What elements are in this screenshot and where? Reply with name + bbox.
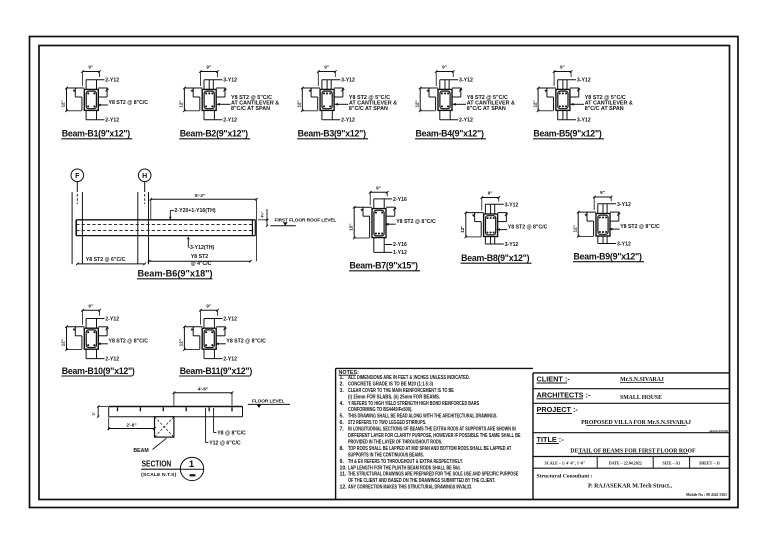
svg-text:Beam-B4(9"x12"): Beam-B4(9"x12") — [416, 129, 484, 139]
svg-text:12.: 12. — [340, 485, 348, 491]
svg-text:DIFFERENT LAYER FOR CLARITY P: DIFFERENT LAYER FOR CLARITY PURPOSE, HOW… — [348, 433, 521, 439]
svg-text:Beam-B3(9"x12"): Beam-B3(9"x12") — [298, 129, 366, 139]
svg-text:Beam-B1(9"x12"): Beam-B1(9"x12") — [62, 129, 130, 139]
svg-text:TH & EX REFERS TO THROUGHOUT &: TH & EX REFERS TO THROUGHOUT & EXTRA RES… — [348, 459, 463, 465]
svg-text:Y8 ST2 @ 8"C/C: Y8 ST2 @ 8"C/C — [109, 339, 149, 345]
svg-text:9": 9" — [88, 303, 93, 308]
svg-text:CLIENT :-: CLIENT :- — [537, 375, 571, 384]
svg-text:@ 4"C/C: @ 4"C/C — [191, 261, 212, 267]
svg-text:Beam-B10(9"x12"): Beam-B10(9"x12") — [62, 366, 135, 376]
svg-text:2-Y12: 2-Y12 — [341, 118, 355, 124]
svg-text:Beam-B7(9"x15"): Beam-B7(9"x15") — [350, 261, 418, 271]
svg-text:2.: 2. — [340, 381, 345, 387]
svg-text:2'-6": 2'-6" — [126, 422, 136, 428]
svg-text:2-Y12: 2-Y12 — [105, 118, 119, 124]
svg-text:9": 9" — [376, 185, 381, 190]
svg-text:5'-3": 5'-3" — [195, 193, 205, 199]
svg-text:5.: 5. — [340, 414, 345, 420]
svg-text:3": 3" — [92, 411, 96, 415]
svg-text:FLOOR LEVEL: FLOOR LEVEL — [252, 399, 285, 405]
svg-text:10.: 10. — [340, 465, 348, 471]
svg-text:Y8 ST2 @ 8"C/C: Y8 ST2 @ 8"C/C — [620, 224, 660, 230]
svg-text:PROVIDED IN THE LAYER OF THROU: PROVIDED IN THE LAYER OF THROUGHOUT RODS… — [348, 440, 443, 446]
svg-text:(i) 15mm FOR SLABS, (ii) 25mm: (i) 15mm FOR SLABS, (ii) 25mm FOR BEAMS. — [348, 394, 440, 400]
svg-text:Beam-B11(9"x12"): Beam-B11(9"x12") — [180, 366, 253, 376]
svg-text:8.: 8. — [340, 446, 345, 452]
svg-text:9": 9" — [600, 190, 605, 195]
svg-text:9": 9" — [88, 65, 93, 70]
svg-text:12": 12" — [61, 339, 66, 346]
svg-text:LAP LENGTH FOR THE PLINTH BEAM: LAP LENGTH FOR THE PLINTH BEAM RODS SHAL… — [348, 465, 461, 471]
svg-text:ALL DIMENSIONS ARE IN FEET & I: ALL DIMENSIONS ARE IN FEET & INCHES UNLE… — [348, 375, 470, 381]
svg-text:TOP RODS SHALL BE LAPPED AT MI: TOP RODS SHALL BE LAPPED AT MID SPAN AND… — [348, 446, 512, 452]
svg-text:12": 12" — [61, 100, 66, 107]
svg-text:CONFORMING TO BS4449/Fe500).: CONFORMING TO BS4449/Fe500). — [348, 407, 413, 413]
svg-text:THIS DRAWING SHALL BE READ ALO: THIS DRAWING SHALL BE READ ALONG WITH TH… — [348, 414, 498, 420]
svg-text:2-Y12: 2-Y12 — [105, 317, 119, 323]
svg-text:IN LONGITUDINAL SECTIONS OF BE: IN LONGITUDINAL SECTIONS OF BEAMS THE EX… — [348, 427, 516, 433]
svg-text:TITLE :-: TITLE :- — [537, 435, 565, 444]
svg-text:DATE – 22.04.2022: DATE – 22.04.2022 — [609, 460, 642, 465]
svg-text:1-Y12: 1-Y12 — [393, 250, 407, 256]
svg-text:12": 12" — [179, 339, 184, 346]
svg-text:ANY CORRECTION MAKES THIS STRU: ANY CORRECTION MAKES THIS STRUCTURAL DRA… — [348, 485, 473, 491]
svg-text:3-Y12: 3-Y12 — [341, 78, 355, 84]
svg-text:2-Y16: 2-Y16 — [393, 197, 407, 203]
svg-text:Beam-B6(9"x18"): Beam-B6(9"x18") — [138, 269, 213, 279]
svg-text:3.: 3. — [340, 388, 345, 394]
svg-text:12": 12" — [532, 100, 537, 107]
svg-text:2-Y16: 2-Y16 — [393, 242, 407, 248]
svg-text:2-Y20+1-Y16(TH): 2-Y20+1-Y16(TH) — [175, 208, 216, 214]
svg-text:THE STRUCTURAL DRAWINGS ARE PR: THE STRUCTURAL DRAWINGS ARE PREPARED FOR… — [348, 472, 519, 478]
svg-text:2-Y12: 2-Y12 — [223, 356, 237, 362]
svg-text:(SCALE N.T.S): (SCALE N.T.S) — [141, 472, 177, 477]
svg-text:Y12 @ 6"C/C: Y12 @ 6"C/C — [209, 441, 241, 447]
svg-text:9": 9" — [324, 65, 329, 70]
svg-text:2-Y12: 2-Y12 — [459, 118, 473, 124]
svg-text:CONCRETE GRADE IS TO BE M20 (1: CONCRETE GRADE IS TO BE M20 (1:1.5:3) — [348, 381, 433, 387]
svg-text:8"C/C AT SPAN: 8"C/C AT SPAN — [231, 106, 270, 112]
svg-text:SECTION: SECTION — [142, 459, 172, 469]
svg-text:Y8 ST2: Y8 ST2 — [191, 254, 208, 260]
svg-text:SIZE – A3: SIZE – A3 — [663, 460, 681, 465]
svg-text:ARCHITECTS :-: ARCHITECTS :- — [537, 390, 591, 399]
svg-text:Y8 ST2 @ 8"C/C: Y8 ST2 @ 8"C/C — [109, 100, 149, 106]
svg-text:3-Y12(TH): 3-Y12(TH) — [190, 245, 214, 251]
svg-text:SUPPORTS IN THE CONTINUOUS BEA: SUPPORTS IN THE CONTINUOUS BEAMS. — [348, 452, 424, 458]
svg-text:Y REFERS TO HIGH YIELD STRENGT: Y REFERS TO HIGH YIELD STRENGTH HIGH BON… — [348, 401, 479, 407]
svg-text:12": 12" — [179, 100, 184, 107]
svg-text:FIRST FLOOR ROOF LEVEL: FIRST FLOOR ROOF LEVEL — [275, 218, 337, 224]
svg-text:2-Y12: 2-Y12 — [223, 317, 237, 323]
svg-text:3-Y12: 3-Y12 — [577, 78, 591, 84]
svg-text:15": 15" — [348, 223, 353, 230]
svg-text:4.: 4. — [340, 401, 345, 407]
svg-text:7.: 7. — [340, 427, 345, 433]
svg-text:12": 12" — [297, 100, 302, 107]
svg-text:OF THE CLIENT AND BASED ON THE: OF THE CLIENT AND BASED ON THE DRAWINGS … — [348, 478, 496, 484]
svg-text:11.: 11. — [340, 472, 347, 478]
svg-text:SCALE – 1: 4'-0", 1'-0": SCALE – 1: 4'-0", 1'-0" — [545, 460, 586, 465]
svg-text:SHEET – 11: SHEET – 11 — [699, 460, 720, 465]
svg-text:F: F — [75, 173, 80, 180]
svg-text:3-Y12: 3-Y12 — [505, 202, 519, 208]
svg-text:PROJECT :-: PROJECT :- — [537, 405, 579, 414]
svg-text:SMALL HOUSE: SMALL HOUSE — [620, 395, 662, 401]
svg-text:9": 9" — [206, 303, 211, 308]
svg-text:Y8 ST2 @ 6"C/C: Y8 ST2 @ 6"C/C — [86, 257, 126, 263]
svg-text:9": 9" — [206, 65, 211, 70]
svg-text:2-Y12: 2-Y12 — [223, 118, 237, 124]
svg-text:Structural Consultant :: Structural Consultant : — [537, 473, 593, 479]
svg-text:Beam-B5(9"x12"): Beam-B5(9"x12") — [533, 129, 601, 139]
svg-text:ARANGANOOR: ARANGANOOR — [709, 430, 728, 433]
svg-text:Y8 ST2 @ 8"C/C: Y8 ST2 @ 8"C/C — [508, 224, 548, 230]
svg-text:1: 1 — [189, 459, 195, 470]
svg-text:8"C/C AT SPAN: 8"C/C AT SPAN — [467, 106, 506, 112]
svg-text:8"C/C AT SPAN: 8"C/C AT SPAN — [349, 106, 388, 112]
svg-text:2-Y12: 2-Y12 — [105, 78, 119, 84]
svg-text:ST2 REFERS TO TWO LEGGED STIRR: ST2 REFERS TO TWO LEGGED STIRRUPS. — [348, 420, 427, 426]
svg-text:1.: 1. — [340, 375, 345, 381]
svg-text:Beam-B9(9"x12"): Beam-B9(9"x12") — [574, 252, 642, 262]
svg-text:9": 9" — [560, 65, 565, 70]
svg-text:9.: 9. — [340, 459, 345, 465]
svg-text:12": 12" — [572, 225, 577, 232]
svg-text:3-Y12: 3-Y12 — [223, 78, 237, 84]
svg-text:9": 9" — [442, 65, 447, 70]
svg-text:P. RAJASEKAR M.Tech Struct.,: P. RAJASEKAR M.Tech Struct., — [588, 484, 673, 490]
svg-text:3-Y12: 3-Y12 — [459, 78, 473, 84]
svg-text:12": 12" — [414, 100, 419, 107]
svg-text:3-Y12: 3-Y12 — [577, 118, 591, 124]
svg-text:CLEAR COVER TO THE MAIN REINFO: CLEAR COVER TO THE MAIN REINFORCEMENT IS… — [348, 388, 454, 394]
svg-text:9": 9" — [488, 191, 493, 196]
svg-text:2-Y12: 2-Y12 — [105, 356, 119, 362]
svg-text:Beam-B2(9"x12"): Beam-B2(9"x12") — [180, 129, 248, 139]
svg-text:BEAM: BEAM — [133, 448, 148, 454]
svg-text:Y8 ST2 @ 8"C/C: Y8 ST2 @ 8"C/C — [226, 339, 266, 345]
svg-text:12": 12" — [460, 226, 465, 233]
svg-text:3-Y12: 3-Y12 — [617, 202, 631, 208]
svg-text:Beam-B8(9"x12"): Beam-B8(9"x12") — [461, 253, 529, 263]
svg-text:3-Y12: 3-Y12 — [617, 241, 631, 247]
svg-text:6.: 6. — [340, 420, 345, 426]
svg-text:8"C/C AT SPAN: 8"C/C AT SPAN — [585, 106, 624, 112]
svg-text:Y8 @ 8"C/C: Y8 @ 8"C/C — [217, 431, 246, 437]
svg-text:3-Y12: 3-Y12 — [505, 242, 519, 248]
svg-text:Mobile No : 98 4343 5561: Mobile No : 98 4343 5561 — [686, 493, 727, 497]
svg-text:4½": 4½" — [260, 211, 264, 217]
svg-text:4'-6": 4'-6" — [198, 387, 208, 393]
svg-text:Y8 ST2 @ 8"C/C: Y8 ST2 @ 8"C/C — [396, 219, 436, 225]
svg-text:H: H — [142, 173, 147, 180]
